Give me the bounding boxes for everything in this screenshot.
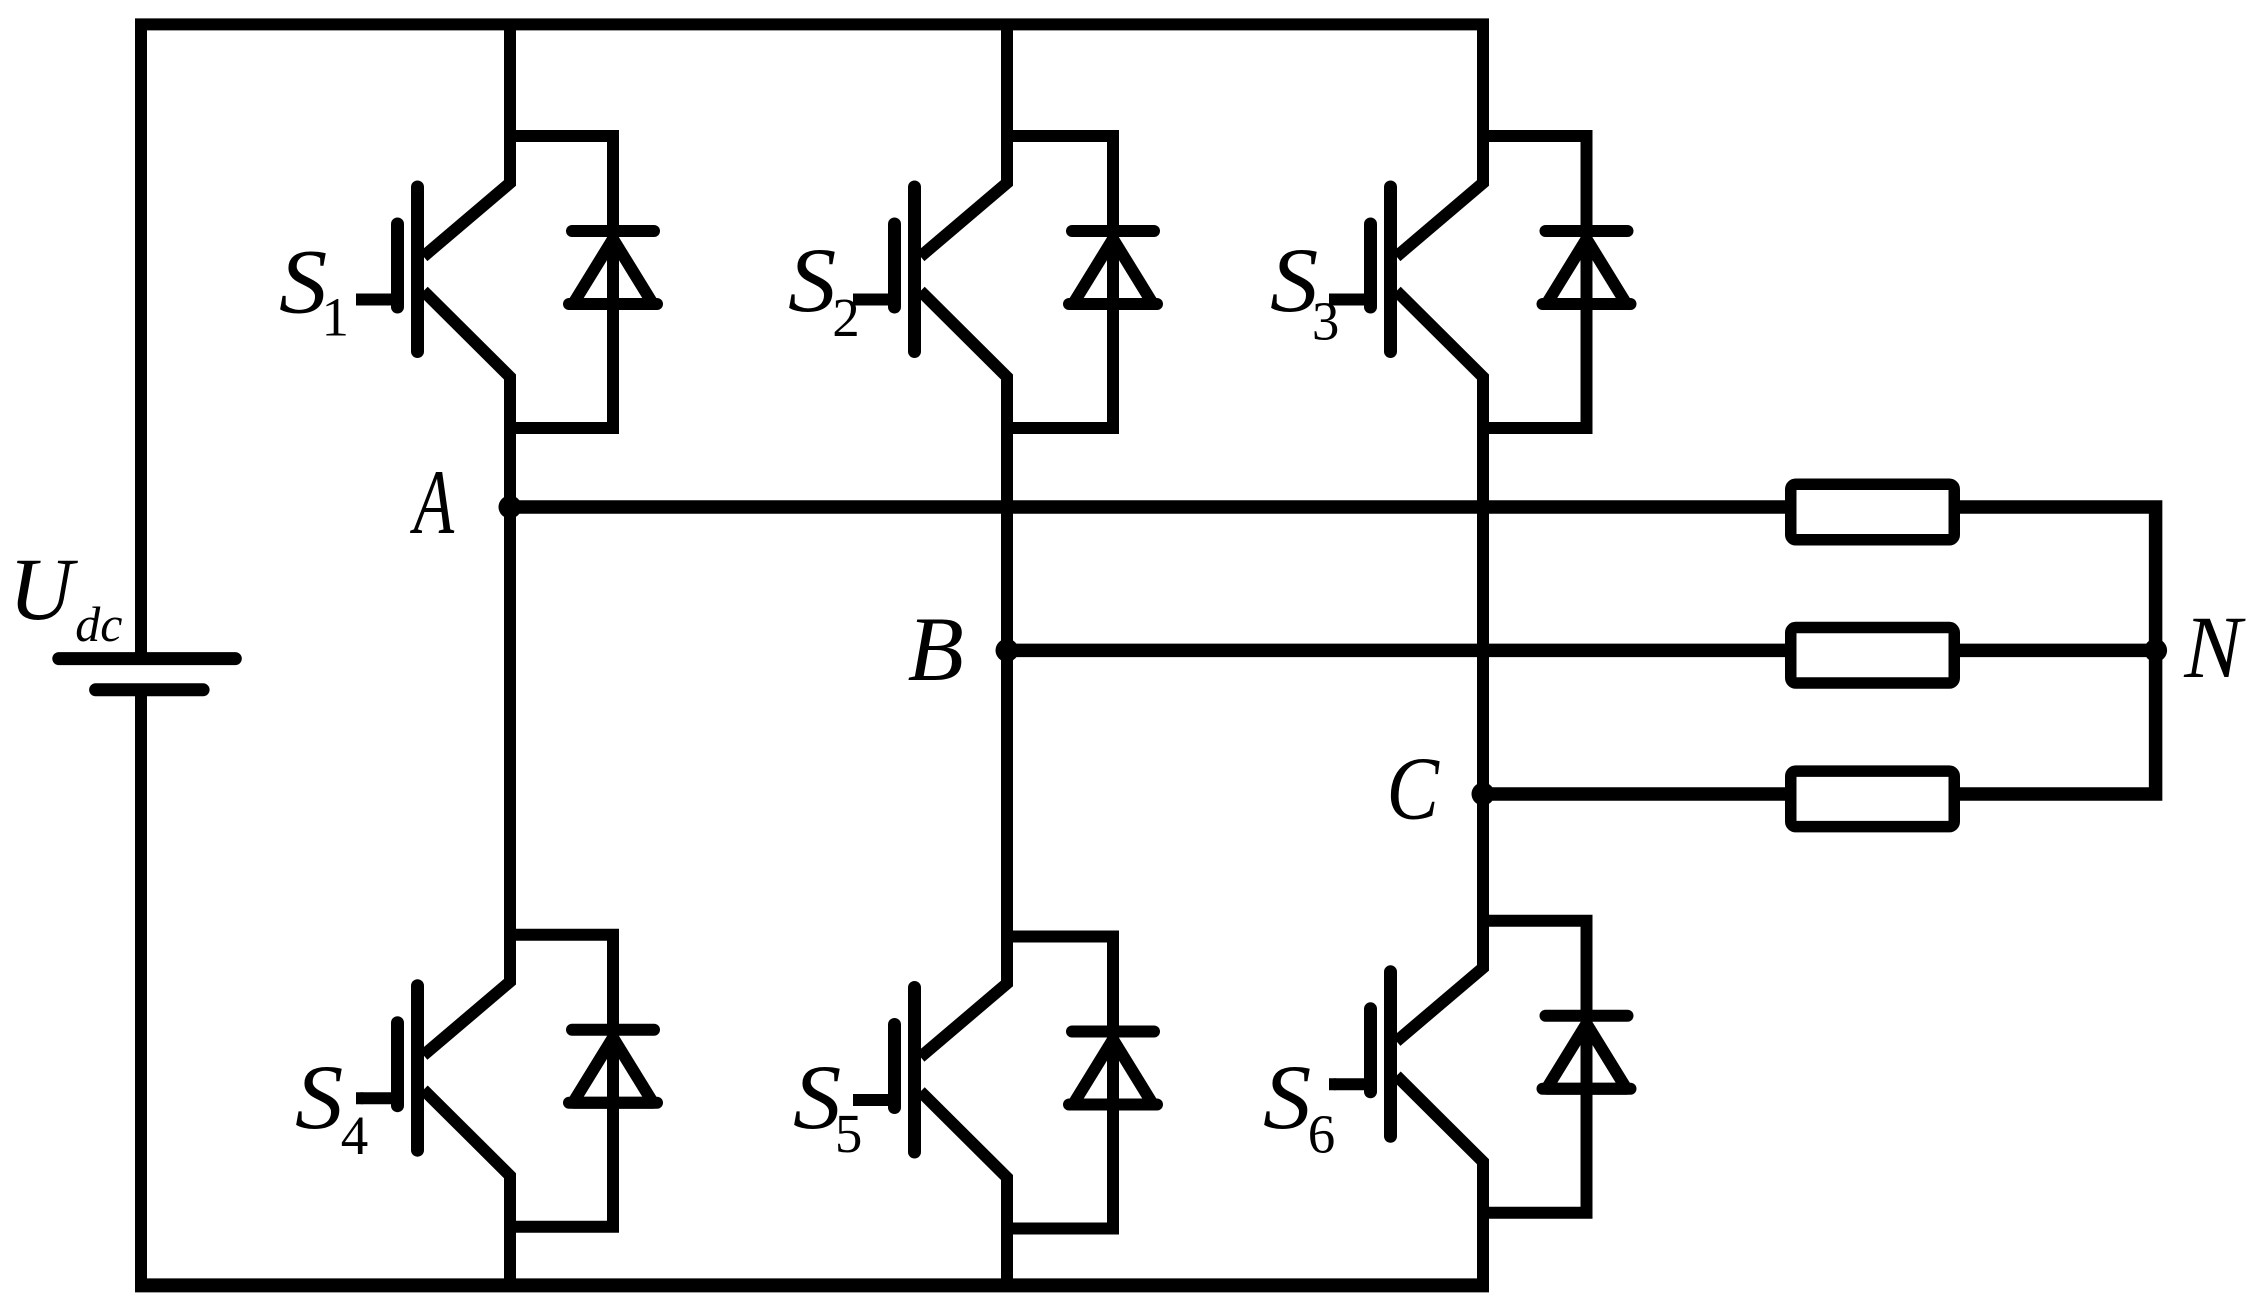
svg-text:dc: dc bbox=[75, 596, 122, 652]
svg-text:5: 5 bbox=[835, 1103, 863, 1164]
svg-text:S: S bbox=[279, 232, 327, 333]
svg-text:S: S bbox=[1263, 1047, 1311, 1148]
svg-text:N: N bbox=[2183, 598, 2246, 697]
svg-text:3: 3 bbox=[1312, 290, 1340, 351]
svg-text:S: S bbox=[295, 1047, 343, 1148]
svg-text:S: S bbox=[788, 230, 836, 331]
svg-text:2: 2 bbox=[832, 287, 860, 348]
svg-text:A: A bbox=[409, 453, 454, 554]
svg-text:U: U bbox=[9, 541, 79, 639]
svg-text:6: 6 bbox=[1308, 1104, 1336, 1165]
svg-text:B: B bbox=[908, 598, 964, 700]
svg-text:4: 4 bbox=[341, 1105, 369, 1166]
svg-text:1: 1 bbox=[322, 287, 350, 348]
svg-text:C: C bbox=[1387, 740, 1441, 839]
